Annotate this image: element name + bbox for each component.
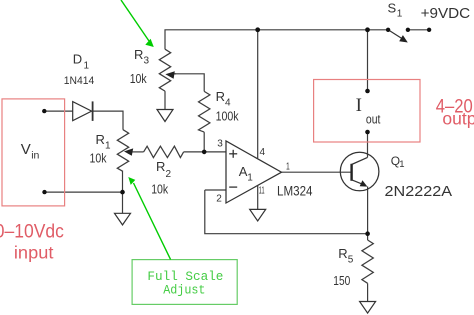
svg-text:V: V xyxy=(21,141,31,158)
svg-text:out: out xyxy=(366,112,381,127)
box Iout red outline xyxy=(314,80,420,143)
node +9VDC terminal xyxy=(427,28,431,32)
ground under R5 xyxy=(360,283,376,313)
wire R4 bottom to pin3 junction xyxy=(203,132,205,152)
wire R1 bottom to junction xyxy=(122,171,124,192)
box Vin red outline xyxy=(2,99,65,206)
node R1 bottom junction xyxy=(120,190,125,195)
svg-text:LM324: LM324 xyxy=(277,183,313,199)
svg-text:+9VDC: +9VDC xyxy=(421,6,471,22)
wire feedback pin2 down and right to R5 junction xyxy=(205,190,368,234)
node pin3 junction xyxy=(202,150,207,155)
svg-text:2: 2 xyxy=(216,193,222,204)
label R1 xyxy=(96,132,112,152)
node emitter R5 feedback junction xyxy=(365,231,370,236)
diode D1 xyxy=(73,101,93,121)
node switch pole contact xyxy=(386,28,390,32)
svg-text:11: 11 xyxy=(259,186,265,197)
wire pin3 junction to op-amp xyxy=(204,151,226,153)
box Full Scale Adjust green outline xyxy=(132,260,237,305)
op-amp plus input symbol xyxy=(229,150,237,158)
label R4 xyxy=(216,89,231,109)
label D1 xyxy=(73,52,90,72)
svg-text:Adjust: Adjust xyxy=(163,282,205,297)
wire R2 right to pin3 junction xyxy=(184,151,205,153)
svg-text:input: input xyxy=(14,243,54,263)
svg-text:I: I xyxy=(356,95,362,116)
svg-text:in: in xyxy=(31,150,39,162)
svg-text:10k: 10k xyxy=(151,182,168,197)
svg-text:1: 1 xyxy=(84,61,90,72)
svg-text:1: 1 xyxy=(247,172,253,183)
svg-text:1: 1 xyxy=(286,162,290,173)
green arrow from green box to R1 xyxy=(128,177,170,260)
svg-text:R: R xyxy=(216,89,225,104)
wire Iout bottom terminal to Q1 collector xyxy=(367,132,369,157)
label Q1 xyxy=(391,154,405,170)
potentiometer R1 wiper arrow xyxy=(124,148,133,155)
transistor Q1 circle xyxy=(340,152,379,191)
node Vin top terminal xyxy=(42,109,46,113)
wire diode cathode to R1 top xyxy=(92,111,123,130)
resistor R5 body xyxy=(362,240,373,283)
svg-text:0–10Vdc: 0–10Vdc xyxy=(0,220,64,242)
wire switch throw to +9VDC terminal xyxy=(408,29,429,31)
node rail junction at pin4 column xyxy=(255,27,260,32)
wire Q1 emitter to R5 junction xyxy=(367,187,369,234)
op-amp A1 triangle xyxy=(226,141,282,203)
svg-text:2: 2 xyxy=(166,169,172,180)
op-amp pin11 wire to ground xyxy=(257,185,259,209)
wire Vin top terminal to diode anode xyxy=(44,110,72,112)
svg-text:150: 150 xyxy=(333,273,350,288)
svg-text:1N414: 1N414 xyxy=(64,75,95,87)
resistor R2 body xyxy=(144,146,184,157)
svg-text:D: D xyxy=(73,52,82,67)
wire R3 wiper to R4 top xyxy=(174,74,204,92)
svg-text:10k: 10k xyxy=(90,151,107,166)
wire op-amp output to Q1 base xyxy=(282,171,352,173)
wire R1 wiper to R2 left xyxy=(132,151,144,153)
transistor Q1 emitter lead with arrow xyxy=(352,180,368,187)
wire rail to Iout box top terminal xyxy=(367,30,369,91)
wire pin4 drop from rail to op-amp xyxy=(257,30,259,159)
node Vin bottom terminal xyxy=(42,190,46,194)
svg-text:3: 3 xyxy=(217,138,223,149)
resistor R3 body xyxy=(159,49,170,91)
svg-text:R: R xyxy=(156,159,165,174)
svg-text:3: 3 xyxy=(144,56,150,67)
resistor R4 body xyxy=(199,91,210,132)
wire pin2 to op-amp xyxy=(205,189,226,191)
svg-text:1: 1 xyxy=(399,159,404,170)
node switch throw contact xyxy=(406,28,410,32)
ground under R3 xyxy=(157,91,173,121)
svg-text:R: R xyxy=(96,132,105,147)
label Vin xyxy=(21,141,40,162)
label S1 xyxy=(388,0,403,19)
svg-text:100k: 100k xyxy=(216,108,239,123)
ground under R1 junction xyxy=(115,192,131,225)
svg-text:5: 5 xyxy=(348,255,354,266)
ground under op-amp pin11 xyxy=(250,209,266,221)
transistor Q1 base bar xyxy=(350,164,352,181)
node Iout top terminal xyxy=(365,89,370,94)
op-amp minus input symbol xyxy=(229,186,237,188)
svg-text:10k: 10k xyxy=(130,71,147,86)
svg-text:output: output xyxy=(442,109,474,129)
svg-text:R: R xyxy=(134,47,143,62)
node rail junction at Iout column xyxy=(365,27,370,32)
wire top rail from R3 to switch pole xyxy=(165,30,388,49)
label R5 xyxy=(338,246,354,266)
wire R5 junction to R5 top xyxy=(367,234,369,240)
svg-text:1: 1 xyxy=(397,8,403,19)
label R2 xyxy=(156,159,172,180)
svg-text:R: R xyxy=(338,246,347,261)
switch S1 blade with arrow xyxy=(388,30,408,43)
svg-text:2N2222A: 2N2222A xyxy=(385,184,453,200)
wire Vin bottom terminal to R1 bottom junction xyxy=(45,191,123,193)
node Iout bottom terminal xyxy=(365,130,370,135)
svg-text:4: 4 xyxy=(225,98,231,109)
resistor R1 body xyxy=(117,130,128,172)
label A1 xyxy=(239,164,254,183)
svg-text:S: S xyxy=(388,0,397,15)
potentiometer R3 wiper arrow xyxy=(165,71,176,79)
green arrow pointing to R3 xyxy=(121,0,154,47)
transistor Q1 collector lead xyxy=(352,157,368,164)
svg-text:4: 4 xyxy=(260,147,266,158)
label R3 xyxy=(134,47,150,67)
